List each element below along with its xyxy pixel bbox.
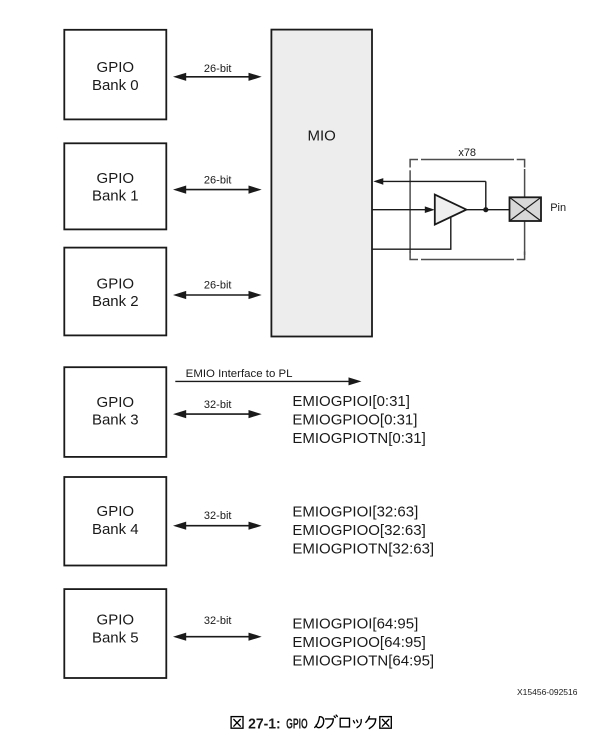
svg-text:EMIOGPIOTN[0:31]: EMIOGPIOTN[0:31] [292,430,425,447]
wire 26-bit arrow Bank1-MIO [173,175,262,194]
wire input from pin to MIO [373,178,486,210]
svg-text:EMIOGPIOTN[32:63]: EMIOGPIOTN[32:63] [292,540,434,557]
wire 32-bit arrow Bank3 [173,399,262,418]
wire output from MIO to buffer [372,206,435,213]
svg-text:32-bit: 32-bit [204,510,232,522]
svg-text:GPIO: GPIO [97,394,135,411]
svg-text:Bank 2: Bank 2 [92,293,139,310]
svg-text:EMIOGPIOI[64:95]: EMIOGPIOI[64:95] [292,616,418,633]
wire 26-bit arrow Bank0-MIO [173,63,262,81]
block GPIO Bank 4 [64,477,166,566]
wire output enable from MIO to buffer [372,216,451,250]
svg-text:Bank 3: Bank 3 [92,411,139,428]
svg-text:GPIO: GPIO [97,503,135,520]
svg-text:Bank 5: Bank 5 [92,630,139,647]
block GPIO Bank 3 [64,367,166,457]
svg-text:GPIO: GPIO [286,716,308,732]
svg-text:X15456-092516: X15456-092516 [517,687,578,697]
svg-text:Bank 4: Bank 4 [92,521,139,538]
node junction dot [483,207,488,212]
caption figure 27-1 [231,715,391,732]
svg-text:27-1:: 27-1: [248,716,281,732]
svg-text:GPIO: GPIO [97,612,135,629]
svg-text:Bank 1: Bank 1 [92,188,139,205]
svg-text:32-bit: 32-bit [204,399,232,411]
kana small tsu [353,720,361,728]
block GPIO Bank 0 [64,30,166,120]
svg-text:EMIOGPIOI[32:63]: EMIOGPIOI[32:63] [292,503,418,520]
svg-text:EMIOGPIOO[64:95]: EMIOGPIOO[64:95] [292,634,425,651]
block GPIO Bank 2 [64,248,166,336]
block GPIO Bank 1 [64,143,166,229]
svg-text:Bank 0: Bank 0 [92,77,139,94]
block GPIO Bank 5 [64,589,166,678]
kana no [315,717,324,728]
svg-text:26-bit: 26-bit [204,63,232,75]
node EMIOGPIO[0:31] labels [292,393,425,447]
wire 32-bit arrow Bank4 [173,510,262,530]
svg-text:26-bit: 26-bit [204,175,232,187]
kana ro [340,718,349,727]
svg-text:GPIO: GPIO [97,170,135,187]
wire buffer output to pin [466,209,509,211]
svg-text:GPIO: GPIO [97,276,135,293]
svg-text:EMIO Interface to PL: EMIO Interface to PL [186,368,293,380]
wire EMIO Interface to PL arrow [175,368,361,386]
svg-text:MIO: MIO [308,127,336,144]
svg-text:x78: x78 [458,147,476,159]
pin pad symbol [510,197,567,221]
label X15456-092516 [517,687,578,697]
svg-text:32-bit: 32-bit [204,615,232,627]
kana ku [366,716,376,728]
svg-text:EMIOGPIOTN[64:95]: EMIOGPIOTN[64:95] [292,653,434,670]
wire 32-bit arrow Bank5 [173,615,262,641]
dashed box x78 [410,147,524,260]
svg-text:Pin: Pin [550,202,566,214]
wire 26-bit arrow Bank2-MIO [173,280,262,299]
svg-text:26-bit: 26-bit [204,280,232,292]
svg-text:EMIOGPIOO[32:63]: EMIOGPIOO[32:63] [292,522,425,539]
node EMIOGPIO[64:95] labels [292,616,434,670]
kanji zu 1 [231,717,243,729]
svg-text:EMIOGPIOI[0:31]: EMIOGPIOI[0:31] [292,393,410,410]
kana bu [326,715,338,728]
node EMIOGPIO[32:63] labels [292,503,434,557]
kanji zu 2 [380,717,392,729]
block MIO [271,30,372,337]
svg-text:EMIOGPIOO[0:31]: EMIOGPIOO[0:31] [292,411,417,428]
svg-text:GPIO: GPIO [97,59,135,76]
buffer tri-state driver [435,195,467,225]
